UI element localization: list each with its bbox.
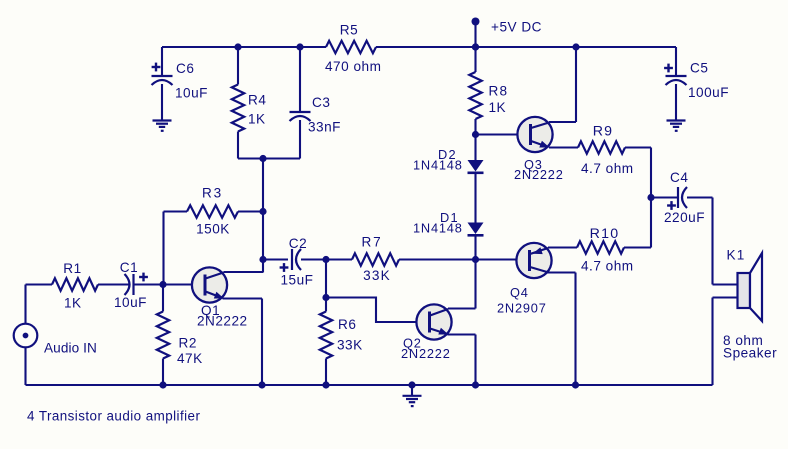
svg-text:K1: K1	[727, 248, 746, 263]
wire R3 to bus	[238, 210, 263, 212]
ground C6	[153, 121, 172, 132]
wire audio to R1	[26, 285, 53, 324]
svg-text:2N2222: 2N2222	[514, 167, 564, 182]
wire Q3 base	[476, 133, 518, 135]
svg-text:Q4: Q4	[510, 285, 529, 300]
svg-text:33K: 33K	[363, 268, 391, 283]
node rail-C3	[296, 43, 303, 50]
wire R4-C3 bottom	[238, 157, 300, 159]
wire ground rail	[26, 384, 713, 386]
wire C6 to rail	[161, 47, 163, 76]
resistor R3	[187, 186, 238, 237]
wire Q1 emitter	[223, 299, 263, 386]
wire R7 node down	[325, 260, 327, 298]
svg-text:4 Transistor audio amplifier: 4 Transistor audio amplifier	[27, 409, 200, 424]
wire top power rail right	[376, 46, 676, 48]
wire Q4 collector	[547, 273, 576, 386]
capacitor C4	[651, 170, 705, 225]
wire base node to R3	[164, 212, 188, 285]
node rail-R8	[472, 43, 479, 50]
wire audio to ground rail	[24, 347, 26, 385]
svg-text:220uF: 220uF	[664, 210, 705, 225]
svg-text:R3: R3	[202, 186, 223, 201]
resistor R7	[326, 235, 399, 284]
diode D2	[413, 147, 484, 173]
diode D1	[413, 210, 484, 236]
resistor R8	[469, 72, 508, 119]
svg-text:470 ohm: 470 ohm	[325, 59, 381, 74]
capacitor C1	[114, 260, 148, 310]
node bus-C2 junction	[259, 256, 266, 263]
capacitor C5	[664, 61, 729, 101]
wire rail to R8	[474, 47, 476, 72]
svg-text:R6: R6	[338, 317, 356, 332]
svg-text:Audio IN: Audio IN	[44, 341, 97, 356]
svg-text:100uF: 100uF	[688, 85, 729, 100]
wire R7 to bias node	[399, 258, 476, 260]
wire rail to C5	[675, 47, 677, 76]
node Q2 emitter rail	[472, 381, 479, 388]
label title	[27, 409, 200, 424]
node output junction	[647, 194, 654, 201]
node +5V supply	[472, 18, 480, 51]
resistor R9	[578, 124, 634, 177]
label +5V DC net	[491, 20, 542, 35]
svg-text:R5: R5	[340, 23, 358, 38]
svg-text:R7: R7	[362, 235, 383, 250]
transistor Q1	[192, 267, 248, 328]
svg-text:2N2907: 2N2907	[497, 301, 547, 316]
svg-text:10uF: 10uF	[114, 295, 147, 310]
svg-text:R2: R2	[179, 336, 197, 351]
wire R4 to bottom node	[237, 132, 239, 159]
node Q4 collector rail	[572, 381, 579, 388]
svg-text:R4: R4	[248, 93, 266, 108]
wire R8 to base node	[474, 119, 476, 135]
transistor Q3	[514, 117, 564, 182]
wire Q3 emitter	[549, 146, 578, 148]
wire Q3 collector	[549, 47, 576, 122]
capacitor C3	[290, 95, 341, 135]
svg-text:4.7 ohm: 4.7 ohm	[581, 259, 634, 274]
node bias junction	[472, 256, 479, 263]
svg-text:C6: C6	[176, 61, 194, 76]
svg-text:15uF: 15uF	[281, 272, 314, 287]
svg-text:47K: 47K	[177, 351, 203, 366]
wire Q4 emitter	[548, 246, 577, 248]
node R6 rail	[322, 381, 329, 388]
svg-text:2N2222: 2N2222	[401, 346, 451, 361]
svg-text:4.7 ohm: 4.7 ohm	[581, 161, 634, 176]
svg-text:R1: R1	[63, 261, 81, 276]
svg-text:Speaker: Speaker	[723, 346, 777, 361]
svg-text:1N4148: 1N4148	[413, 220, 463, 235]
wire top power rail left	[162, 46, 326, 48]
svg-text:1K: 1K	[489, 100, 507, 115]
wire speaker to ground rail	[711, 298, 713, 386]
wire Q1 collector	[224, 271, 264, 273]
svg-text:150K: 150K	[196, 222, 230, 237]
wire R10 to output node	[624, 198, 651, 248]
node R6 top junction	[322, 294, 329, 301]
node Q3 collector rail	[572, 43, 579, 50]
svg-text:1K: 1K	[64, 296, 82, 311]
node rail-R4	[234, 43, 241, 50]
node mid-ground junction	[408, 381, 415, 388]
svg-text:R8: R8	[489, 84, 509, 99]
wire rail to R4	[237, 47, 239, 85]
wire speaker top stub	[713, 283, 738, 285]
node Q3 base junction	[472, 131, 479, 138]
capacitor C6	[152, 61, 208, 101]
resistor R4	[232, 85, 267, 132]
wire Q2 emitter	[448, 335, 476, 386]
capacitor C2	[263, 236, 313, 287]
resistor R2	[157, 285, 203, 386]
wire rail to C3	[299, 47, 301, 112]
node C2-R7 junction	[322, 256, 329, 263]
wire C2 to R7 node	[301, 258, 326, 260]
ground center	[403, 385, 422, 407]
node Q1 emitter rail	[258, 381, 265, 388]
node R2 rail	[159, 381, 166, 388]
speaker K1	[723, 248, 777, 361]
wire D2 to D1	[474, 174, 476, 223]
node R3 bus junction	[259, 208, 266, 215]
wire speaker bottom stub	[713, 296, 738, 298]
svg-text:C2: C2	[289, 236, 307, 251]
resistor R1	[52, 261, 98, 311]
svg-text:R9: R9	[593, 124, 614, 140]
svg-text:1K: 1K	[248, 112, 266, 127]
wire Q4 base	[476, 258, 517, 260]
svg-text:33nF: 33nF	[308, 120, 341, 135]
wire collector bus	[262, 159, 264, 273]
connector Audio IN	[14, 324, 97, 356]
transistor Q4	[497, 243, 552, 316]
resistor R6	[320, 298, 363, 386]
svg-text:C1: C1	[120, 260, 138, 275]
wire Q2 collector	[448, 260, 476, 309]
svg-text:33K: 33K	[337, 338, 363, 353]
node R4-C3 junction	[259, 155, 266, 162]
svg-text:C4: C4	[670, 170, 688, 185]
wire C6 to ground	[161, 84, 163, 121]
node Q1 base junction	[159, 281, 166, 288]
wire Q1 base	[163, 283, 192, 285]
svg-text:C3: C3	[312, 95, 330, 110]
wire C1 to base node	[134, 283, 164, 285]
wire R1 to C1	[98, 283, 129, 285]
wire C5 to ground	[675, 84, 677, 121]
wire node to D2	[474, 135, 476, 161]
resistor R5	[325, 23, 381, 75]
svg-text:1N4148: 1N4148	[413, 157, 463, 172]
wire C4 to speaker	[687, 198, 713, 285]
wire D1 to bias node	[474, 237, 476, 260]
wire C3 to bottom node	[299, 120, 301, 159]
svg-text:C5: C5	[690, 61, 708, 76]
resistor R10	[577, 226, 634, 274]
wire R9 to output node	[625, 148, 651, 198]
ground C5	[667, 121, 686, 132]
transistor Q2	[401, 304, 452, 361]
svg-text:10uF: 10uF	[175, 86, 208, 101]
svg-text:+5V DC: +5V DC	[491, 20, 542, 35]
svg-text:2N2222: 2N2222	[197, 314, 248, 329]
svg-text:R10: R10	[590, 226, 620, 242]
wire Q2 base path	[326, 298, 416, 323]
